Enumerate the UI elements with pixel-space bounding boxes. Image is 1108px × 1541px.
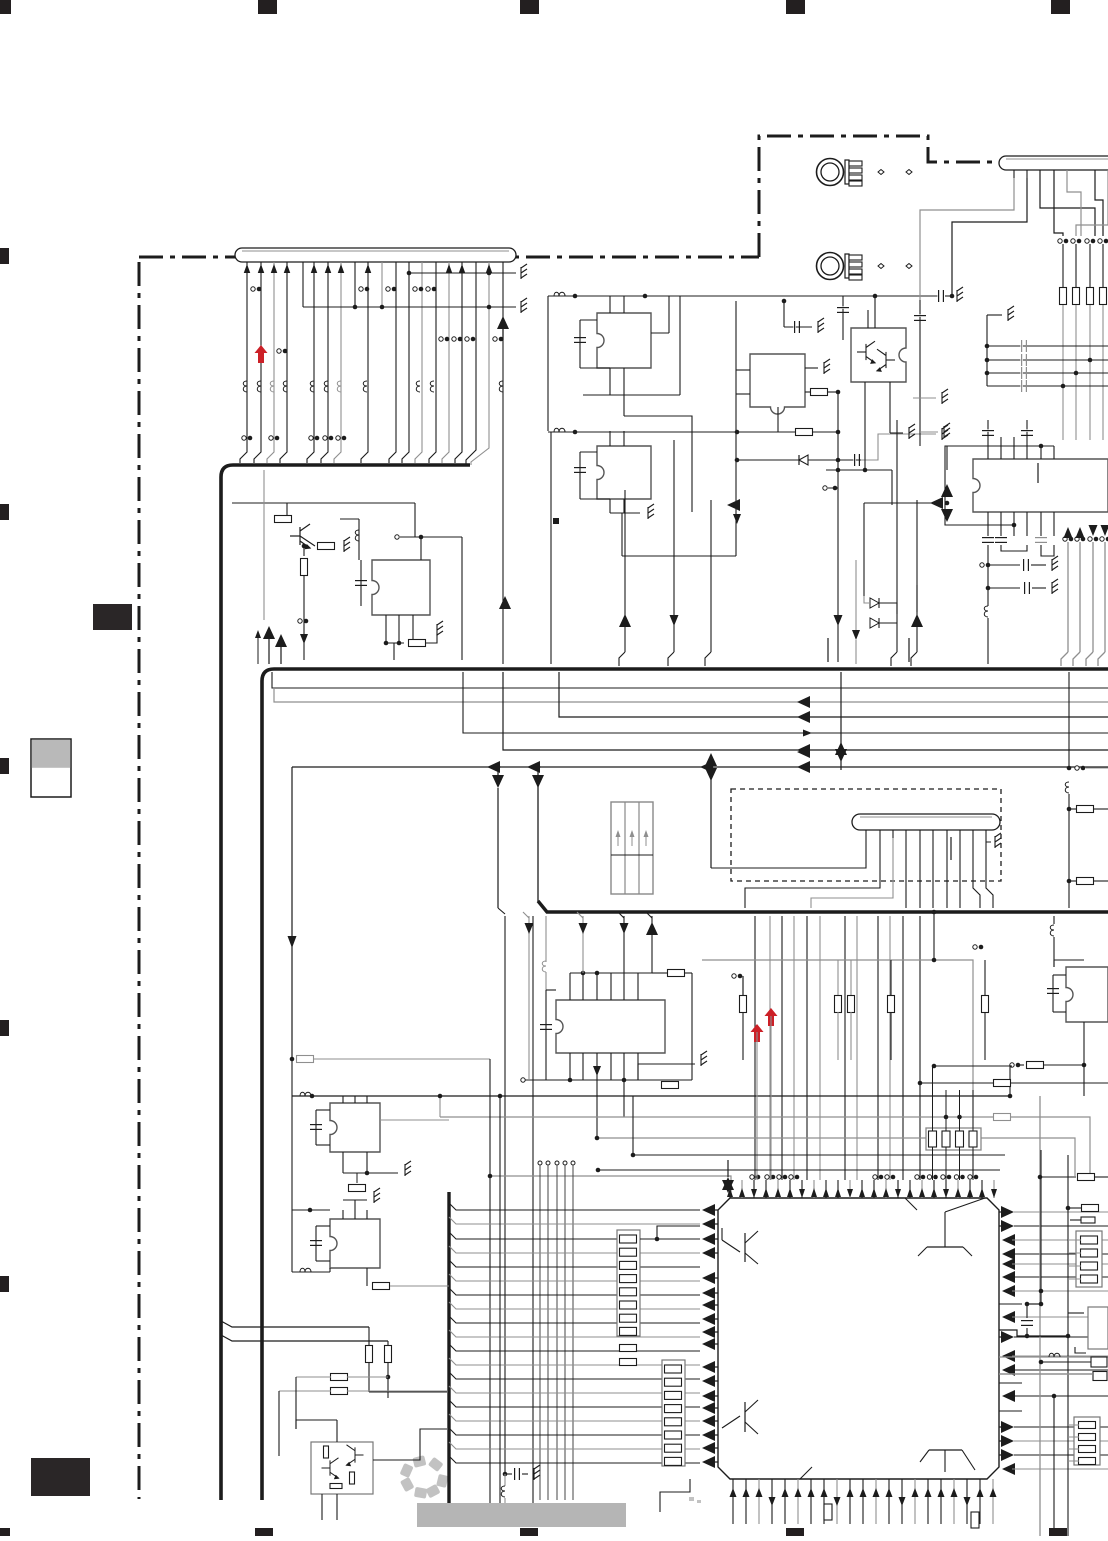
- resistor: [1077, 806, 1094, 813]
- CN-C pin2 wire: [745, 838, 880, 908]
- resistors right edge: [1040, 1176, 1076, 1178]
- grey verticals with arrows below U5: [1063, 537, 1067, 541]
- MCU top pins: [729, 1180, 731, 1198]
- resistor R-q3: [301, 559, 308, 576]
- thick bus 1 (upper left L): [221, 465, 470, 1500]
- optocoupler U4: [851, 328, 906, 382]
- signal line 5 (y=769): [292, 766, 1108, 768]
- supply line 1 with bead: [548, 295, 938, 297]
- ferrite bead: [300, 1092, 311, 1096]
- wire to ground (row 2): [303, 306, 516, 308]
- right column feed: [1068, 672, 1070, 768]
- IC U7: [1066, 967, 1108, 1022]
- capacitor: [914, 314, 926, 316]
- resistor: [324, 1446, 329, 1458]
- wire: [633, 1154, 1005, 1156]
- CN-B pin stubs: [1013, 170, 1015, 178]
- arrow down: [300, 634, 308, 644]
- right loop: [691, 973, 693, 1080]
- pin-1 mark U5: [1037, 463, 1039, 483]
- capacitor C1: [574, 336, 586, 338]
- CN-B wire 2: [1054, 170, 1063, 236]
- short wire to gnd row 2: [302, 262, 304, 307]
- grey speck (bottom centre): [689, 1497, 694, 1501]
- branch wire 1: [221, 1321, 369, 1327]
- ferrite bead: [355, 530, 359, 541]
- CN-B wire 4: [1095, 170, 1103, 236]
- junction on bus3: [932, 910, 937, 915]
- U4 top wire: [874, 296, 876, 328]
- signal line 4 (y=750): [503, 672, 1108, 750]
- bold arrows pair above bus2 left: [263, 626, 275, 639]
- wire: [679, 296, 681, 395]
- CN-B wire 6 (to cap): [920, 178, 1014, 300]
- wire right: [380, 1119, 449, 1121]
- drop wire to bus 3: [497, 788, 499, 908]
- long vertical: [499, 1096, 501, 1503]
- wire from bus3: [545, 916, 547, 962]
- registration tick marks left edge: [0, 248, 9, 264]
- ground: [648, 504, 654, 519]
- wire down: [837, 392, 839, 662]
- MCU bottom pins: [732, 1479, 734, 1524]
- bold arrow lower on wire x=505: [499, 596, 511, 609]
- resistor right edge: [1093, 1372, 1107, 1381]
- resistor R6b: [662, 1082, 679, 1089]
- ground: [909, 424, 915, 439]
- wires above U6: [528, 916, 530, 1080]
- long vertical x=533: [532, 916, 534, 1474]
- junction: [986, 563, 991, 568]
- resistor: [385, 1346, 392, 1363]
- signal line 3 (y=733): [463, 672, 1108, 733]
- MCU right short stubs: [999, 1303, 1022, 1305]
- capacitor: [853, 454, 855, 466]
- switch block S1: [611, 802, 653, 894]
- verticals into bus 2: [624, 500, 626, 652]
- resistor: [330, 1484, 342, 1489]
- U5 top pins and caps: [987, 446, 989, 459]
- wire: [400, 536, 462, 538]
- grey/white swatch box (left margin): [31, 739, 71, 797]
- connector bar CN-A (top left): [235, 248, 516, 262]
- U6 bottom pins: [569, 1053, 571, 1080]
- ground: [824, 359, 830, 374]
- arrow cluster mid: [727, 499, 740, 511]
- dark ink patch 2 (left margin): [31, 1458, 90, 1496]
- CN-B wire 1: [1040, 170, 1095, 236]
- bold arrow on wire x=503: [497, 316, 509, 329]
- bead wire right mid: [999, 1356, 1108, 1358]
- long grey wire y=1138: [597, 1138, 1075, 1176]
- wire: [532, 1474, 534, 1503]
- wire stub: [908, 638, 910, 662]
- arrow clusters on line 5: [487, 761, 500, 773]
- resistor R6a: [668, 970, 685, 977]
- 4-way cluster: [700, 761, 713, 773]
- transistor Q1: [290, 524, 310, 549]
- wire to bus 2: [303, 576, 305, 660]
- registration mark top row: [0, 0, 11, 14]
- U1 top pin: [609, 296, 611, 313]
- grey wire: [855, 560, 857, 630]
- ground: [405, 1161, 411, 1176]
- ferrite bead: [1049, 1353, 1060, 1357]
- capacitor C6: [540, 1023, 552, 1025]
- regulator U3: [750, 354, 805, 414]
- five test point wires: [538, 1161, 542, 1165]
- CN-B wire 3: [1067, 170, 1081, 236]
- left drop of line 5: [291, 767, 293, 1059]
- left vertical wire: [735, 301, 737, 556]
- op-amp U1: [597, 313, 651, 368]
- IC U-B: [292, 1209, 330, 1211]
- signal line 1 (y=700): [274, 688, 1108, 702]
- capacitor C2: [574, 466, 586, 468]
- resistor network RN5 above MCU: [926, 1128, 981, 1150]
- MOSFET pair Q5: [863, 503, 865, 596]
- IC U-A: [330, 1103, 380, 1152]
- resistor: [1100, 288, 1107, 305]
- resistor: [1060, 288, 1067, 305]
- transistor pair box Q10/Q11: [311, 1442, 373, 1494]
- connector A wire bundle: [240, 262, 247, 463]
- resistor: [1087, 288, 1094, 305]
- CN-C pin1 wire: [711, 838, 866, 868]
- diode row wire: [737, 459, 862, 461]
- thick bus 2 (main horizontal): [262, 669, 1108, 1500]
- ground: [818, 318, 824, 333]
- IC U6: [556, 1000, 665, 1053]
- MCU IC901 body: [718, 1198, 999, 1479]
- U7 bottom wire: [1083, 1022, 1085, 1065]
- red arrow marker 2: [751, 1024, 764, 1042]
- resistor R3: [811, 389, 828, 396]
- resistor network RN4: [1074, 1417, 1100, 1465]
- CN-B wire 5: [1076, 170, 1108, 236]
- single resistors below RN1: [620, 1345, 637, 1352]
- capacitor: [982, 536, 994, 538]
- ground: [437, 621, 443, 636]
- shield mark: [950, 837, 952, 860]
- wire to bus2: [461, 537, 463, 660]
- vertical feed: [547, 296, 549, 431]
- ground: [344, 537, 350, 552]
- capacitor: [837, 306, 849, 308]
- wire loop around U5: [945, 446, 1054, 525]
- resistor network RN1: [617, 1230, 640, 1336]
- grey wire bus1 to arrows: [263, 470, 265, 620]
- long wire right: [622, 555, 736, 557]
- tab mark top right: [905, 1198, 917, 1210]
- junction square: [553, 518, 559, 524]
- resistor: [331, 1388, 348, 1395]
- fan-out harness bus4 to MCU left pins: [449, 1203, 700, 1210]
- connector A wire x=503: [502, 262, 504, 664]
- tab mark bottom: [800, 1467, 812, 1479]
- grey ring logo (bottom centre-left): [414, 1487, 428, 1499]
- wire: [340, 518, 359, 520]
- transistor Q10: [322, 1458, 339, 1479]
- arrow: [593, 1066, 601, 1076]
- short wire to gnd row 2: [354, 262, 356, 307]
- U3 left pin: [736, 369, 750, 371]
- U3 top wire: [784, 326, 812, 328]
- input line to U-A: [290, 1057, 295, 1062]
- CN-C pins: [865, 830, 867, 838]
- ground: [701, 1051, 707, 1066]
- dashed box (display unit): [731, 789, 1001, 881]
- resistor right edge: [1091, 1357, 1107, 1367]
- open terminal: [395, 535, 399, 539]
- capacitor: [793, 321, 795, 333]
- double arrow top-left of MCU: [722, 1177, 734, 1190]
- wire to ground (row 1): [409, 272, 516, 274]
- resistor: [1077, 878, 1094, 885]
- MCU right pins: [1001, 1206, 1014, 1218]
- MCU internal transistor bottom-right: [944, 1450, 946, 1472]
- junction pairs on connector A wires: [251, 287, 255, 291]
- caps above right IC: [842, 296, 844, 340]
- ferrite beads on connector A wires: [243, 381, 247, 392]
- wire: [414, 503, 416, 537]
- wire: [303, 546, 305, 556]
- grey feed line into MCU left: [490, 1176, 731, 1198]
- wire from U1 to mid: [624, 416, 692, 512]
- op-amp U-D: [372, 560, 430, 615]
- wire to bus2: [393, 643, 395, 660]
- resistor: [297, 1056, 314, 1063]
- ground U5: [944, 423, 950, 438]
- signal line 0 (y=688): [272, 672, 1108, 688]
- resistor: [994, 1080, 1011, 1087]
- registration mark bottom row: [0, 1528, 10, 1536]
- branch wire 2: [221, 1335, 388, 1341]
- junction pair: [277, 349, 281, 353]
- U1 bottom pins: [609, 368, 611, 395]
- resistor bottom right: [971, 1512, 979, 1528]
- wire down from U6: [596, 1080, 598, 1138]
- grey loop wires right mid: [702, 960, 973, 1176]
- long vertical x=505: [504, 916, 506, 1474]
- ground: [374, 1188, 380, 1203]
- resistor: [349, 1185, 366, 1192]
- supply line 2 with bead: [548, 431, 838, 433]
- resistor: [796, 429, 813, 436]
- dark ink patch 1 (left margin): [93, 604, 132, 630]
- transistor Q11: [347, 1445, 364, 1466]
- motor M at y=266: [817, 253, 844, 280]
- ferrite bead: [984, 606, 988, 617]
- wire down to bus2: [550, 432, 552, 664]
- wire loop: [1001, 545, 1027, 551]
- U6 top pins: [569, 973, 571, 1000]
- thick bus 3 (right horizontal): [538, 901, 1108, 912]
- capacitor: [995, 536, 1007, 538]
- MCU internal transistor top-left: [722, 1240, 740, 1252]
- resistor: [366, 1346, 373, 1363]
- ground: [942, 425, 948, 440]
- wire down: [336, 1494, 338, 1520]
- capacitor: [1035, 536, 1047, 538]
- signal line 2 (y=717): [559, 672, 1108, 717]
- capacitor: [937, 290, 939, 302]
- IC-D bottom pins: [385, 615, 387, 643]
- red arrow marker 3: [765, 1008, 778, 1026]
- wire arrows into connector A: [244, 264, 251, 273]
- wire: [300, 536, 315, 546]
- ground: [1052, 579, 1058, 594]
- resistor: [1073, 288, 1080, 305]
- wire from bus1 to transistor Q1: [232, 502, 415, 504]
- wire: [864, 400, 866, 470]
- capacitor: [310, 1239, 322, 1241]
- grounds left of CN-B block: [913, 397, 936, 399]
- contact pins: [878, 170, 884, 175]
- cap to ground mid-bottom: [503, 1472, 508, 1477]
- contact pins: [878, 264, 884, 269]
- IC U-B: [330, 1219, 380, 1268]
- connector tall box right edge: [1088, 1307, 1108, 1349]
- wire stub: [827, 638, 829, 662]
- junction pairs above MCU: [750, 1175, 754, 1179]
- wire out of box: [373, 1429, 447, 1460]
- connector bar CN-B (top right): [999, 156, 1108, 170]
- grey title bar (bottom, overlay): [417, 1503, 626, 1527]
- transistor inside U4 (mirrored): [877, 349, 895, 371]
- ferrite bead: [1050, 925, 1054, 936]
- ground CN-C: [995, 833, 1001, 848]
- chain border left vertical: [138, 262, 141, 1499]
- short wire to gnd row 2: [381, 262, 383, 307]
- arrow cluster left of U5 loop: [864, 502, 941, 504]
- long grey wire y=1117: [440, 1116, 994, 1118]
- CN-C pin3 wire: [811, 838, 893, 908]
- resistor R-q2: [318, 543, 335, 550]
- CN-B wire 7: [952, 178, 1027, 296]
- ground: [521, 298, 527, 313]
- IC U5 (right edge): [973, 459, 1108, 512]
- ferrite bead: [501, 1486, 505, 1497]
- vertical: [1053, 1396, 1055, 1536]
- chain border motor box: [759, 136, 998, 257]
- resistor R-d: [409, 640, 426, 647]
- U4 bottom pin: [864, 382, 866, 400]
- ground: [957, 287, 963, 302]
- resistor bottom right 2: [824, 1504, 832, 1520]
- resistors row y~1004: [742, 976, 744, 996]
- arrow down: [288, 936, 297, 948]
- long signal wire y=1096: [292, 1095, 1010, 1097]
- left feed vertical: [291, 1059, 293, 1272]
- resistor: [994, 1114, 1011, 1121]
- connector bar CN-C: [852, 814, 1000, 830]
- grey wire to ground: [861, 434, 936, 460]
- chain border top horizontal: [139, 256, 759, 259]
- right column verticals: [1039, 1096, 1041, 1536]
- ground: [521, 264, 527, 279]
- ground: [534, 1465, 540, 1480]
- resistor network RN2: [662, 1360, 685, 1466]
- bundle from bus3 to MCU: [754, 916, 756, 1180]
- transistor inside U4: [857, 341, 875, 363]
- capacitor C-d: [355, 579, 367, 581]
- motor M at y=172: [817, 159, 844, 186]
- resistor: [373, 1283, 390, 1290]
- MCU left pins: [702, 1204, 715, 1216]
- red arrow marker 1: [255, 345, 268, 363]
- small arrow: [255, 630, 261, 638]
- thick bus 4 (bottom vertical): [447, 1192, 450, 1520]
- MCU internal transistor top-right: [944, 1212, 946, 1247]
- cap cluster right of MCU: [1039, 1289, 1044, 1294]
- MCU internal transistor bottom-left: [722, 1416, 740, 1428]
- wire loop: [1041, 545, 1054, 556]
- diode D1: [799, 455, 808, 465]
- resistor: [1027, 1062, 1044, 1069]
- verticals through RN5: [932, 1090, 934, 1131]
- ground: [1008, 306, 1014, 321]
- long vertical: [489, 1059, 491, 1503]
- wire into box: [336, 1420, 338, 1442]
- wire: [919, 300, 921, 446]
- resistor: [350, 1472, 355, 1484]
- bottom pin route left: [660, 1479, 690, 1512]
- capacitor C7: [1047, 987, 1059, 989]
- wire: [426, 634, 437, 643]
- resistor: [331, 1374, 348, 1381]
- feed wire of bus 3: [537, 775, 539, 902]
- junction pair row under CN-B: [1058, 239, 1062, 243]
- wire from 4-way cluster: [710, 771, 712, 868]
- ground: [942, 389, 948, 404]
- lines right with resistors: [932, 1064, 937, 1069]
- resistor network RN3: [1076, 1231, 1102, 1287]
- U5 bottom pins: [987, 512, 989, 536]
- lower junction pairs on connector A wires: [242, 436, 246, 440]
- U2 top pin: [609, 431, 611, 446]
- U3 bottom pin to supply2: [777, 407, 779, 432]
- wire: [598, 1169, 1000, 1171]
- ferrite bead: [1065, 782, 1069, 793]
- op-amp U2: [597, 446, 651, 499]
- ground: [1052, 556, 1058, 571]
- resistor R-q1 base: [275, 516, 292, 523]
- capacitor rows to CN-B wires: [986, 315, 988, 386]
- ferrite bead: [300, 1268, 311, 1272]
- capacitor: [310, 1123, 322, 1125]
- vertical x=841 through line4: [840, 672, 842, 770]
